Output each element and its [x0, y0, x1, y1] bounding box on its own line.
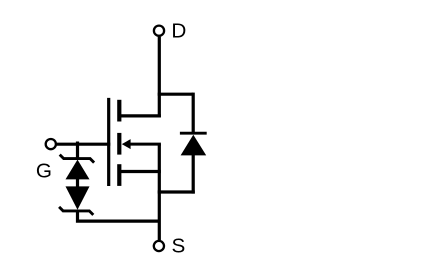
transistor Q1 channel top segment: [117, 100, 121, 122]
transistor Q1 channel middle segment: [117, 133, 121, 155]
transistor Q1 body arrow: [122, 139, 131, 149]
wire body connect: [130, 143, 161, 146]
wire gate lead: [56, 143, 110, 146]
wire source connect to channel: [120, 170, 161, 173]
transistor Q1 gate line: [107, 98, 110, 186]
wire diode branch lower: [192, 155, 195, 194]
terminal D circle: [154, 26, 164, 36]
wire drain lead: [158, 37, 161, 118]
wire zener branch from gate: [76, 142, 79, 159]
transistor Q1 channel bottom segment: [117, 164, 121, 186]
diode D1 cathode bar: [180, 132, 207, 135]
wire zener midpoint: [76, 179, 79, 188]
wire drain to diode branch: [158, 93, 194, 96]
zener Z2 cathode bar: [59, 207, 93, 215]
wire source vertical: [158, 144, 161, 240]
terminal S circle: [154, 241, 164, 251]
zener Z2 triangle: [66, 186, 90, 209]
wire diode branch upper: [192, 93, 195, 134]
zener Z1 triangle: [66, 160, 90, 180]
wire drain connect to channel: [120, 114, 161, 117]
wire zener to source: [78, 210, 160, 222]
svg-text:S: S: [172, 234, 186, 257]
diode D1 triangle: [181, 135, 207, 156]
svg-text:D: D: [171, 20, 186, 43]
wire source to diode branch: [158, 190, 195, 193]
terminal G circle: [46, 139, 56, 149]
svg-text:G: G: [36, 160, 52, 183]
zener Z1 cathode bar: [60, 155, 94, 163]
